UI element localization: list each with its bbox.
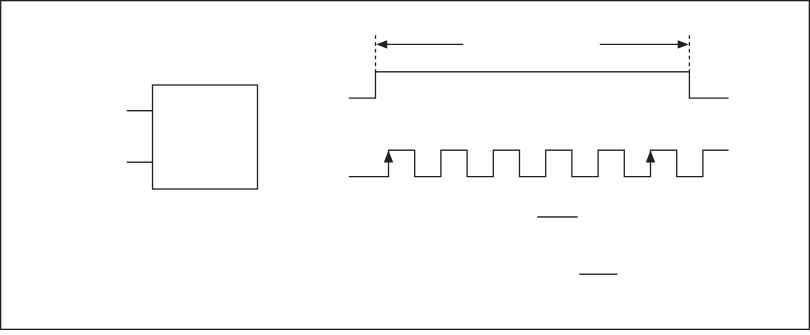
edge arrow on first WDI rising edge (384, 150, 393, 162)
pin 2 lead wire (127, 161, 153, 163)
RESET pulse waveform (349, 72, 729, 98)
overline of WDO label (537, 216, 578, 218)
timeout arrow right (600, 40, 689, 48)
dashed edge marker left (375, 35, 377, 72)
edge arrow on sixth WDI rising edge (646, 150, 655, 162)
pin 1 lead wire (127, 110, 153, 112)
WDI clock waveform (349, 150, 729, 176)
IC block U1 (153, 85, 258, 189)
overline of RESET label (579, 273, 617, 275)
dashed edge marker right (688, 35, 690, 72)
timeout arrow left (376, 40, 463, 48)
